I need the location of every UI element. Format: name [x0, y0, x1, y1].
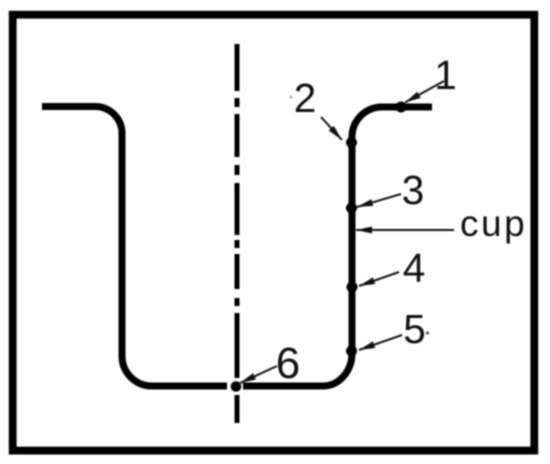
- svg-text:4: 4: [403, 245, 426, 291]
- speck near label 5: [426, 331, 429, 334]
- centerline (vertical dash-dot axis): [235, 44, 240, 423]
- node point 5: [346, 346, 357, 357]
- leader arrow cup: [356, 229, 454, 231]
- node point 2: [346, 137, 357, 148]
- node point 1: [396, 102, 407, 113]
- svg-text:1: 1: [434, 52, 457, 98]
- leader arrow 6: [240, 366, 277, 383]
- leader arrow 2: [321, 117, 342, 140]
- svg-text:2: 2: [294, 75, 317, 121]
- leader arrow 1: [405, 81, 444, 103]
- leader arrow 5: [359, 335, 402, 350]
- svg-text:6: 6: [276, 339, 300, 388]
- cup profile right half (bottom from gap, wall, flange): [243, 107, 432, 386]
- node point 3: [346, 203, 357, 214]
- speck near label 2: [290, 96, 293, 99]
- node point 4: [347, 282, 358, 293]
- svg-text:5: 5: [403, 306, 426, 352]
- cup profile left half (flange, wall, bottom to gap): [42, 107, 227, 387]
- leader arrow 3: [357, 194, 401, 207]
- svg-text:3: 3: [402, 167, 425, 213]
- leader arrow 4: [359, 272, 399, 286]
- node point 6: [231, 381, 242, 392]
- svg-text:cup: cup: [460, 203, 527, 244]
